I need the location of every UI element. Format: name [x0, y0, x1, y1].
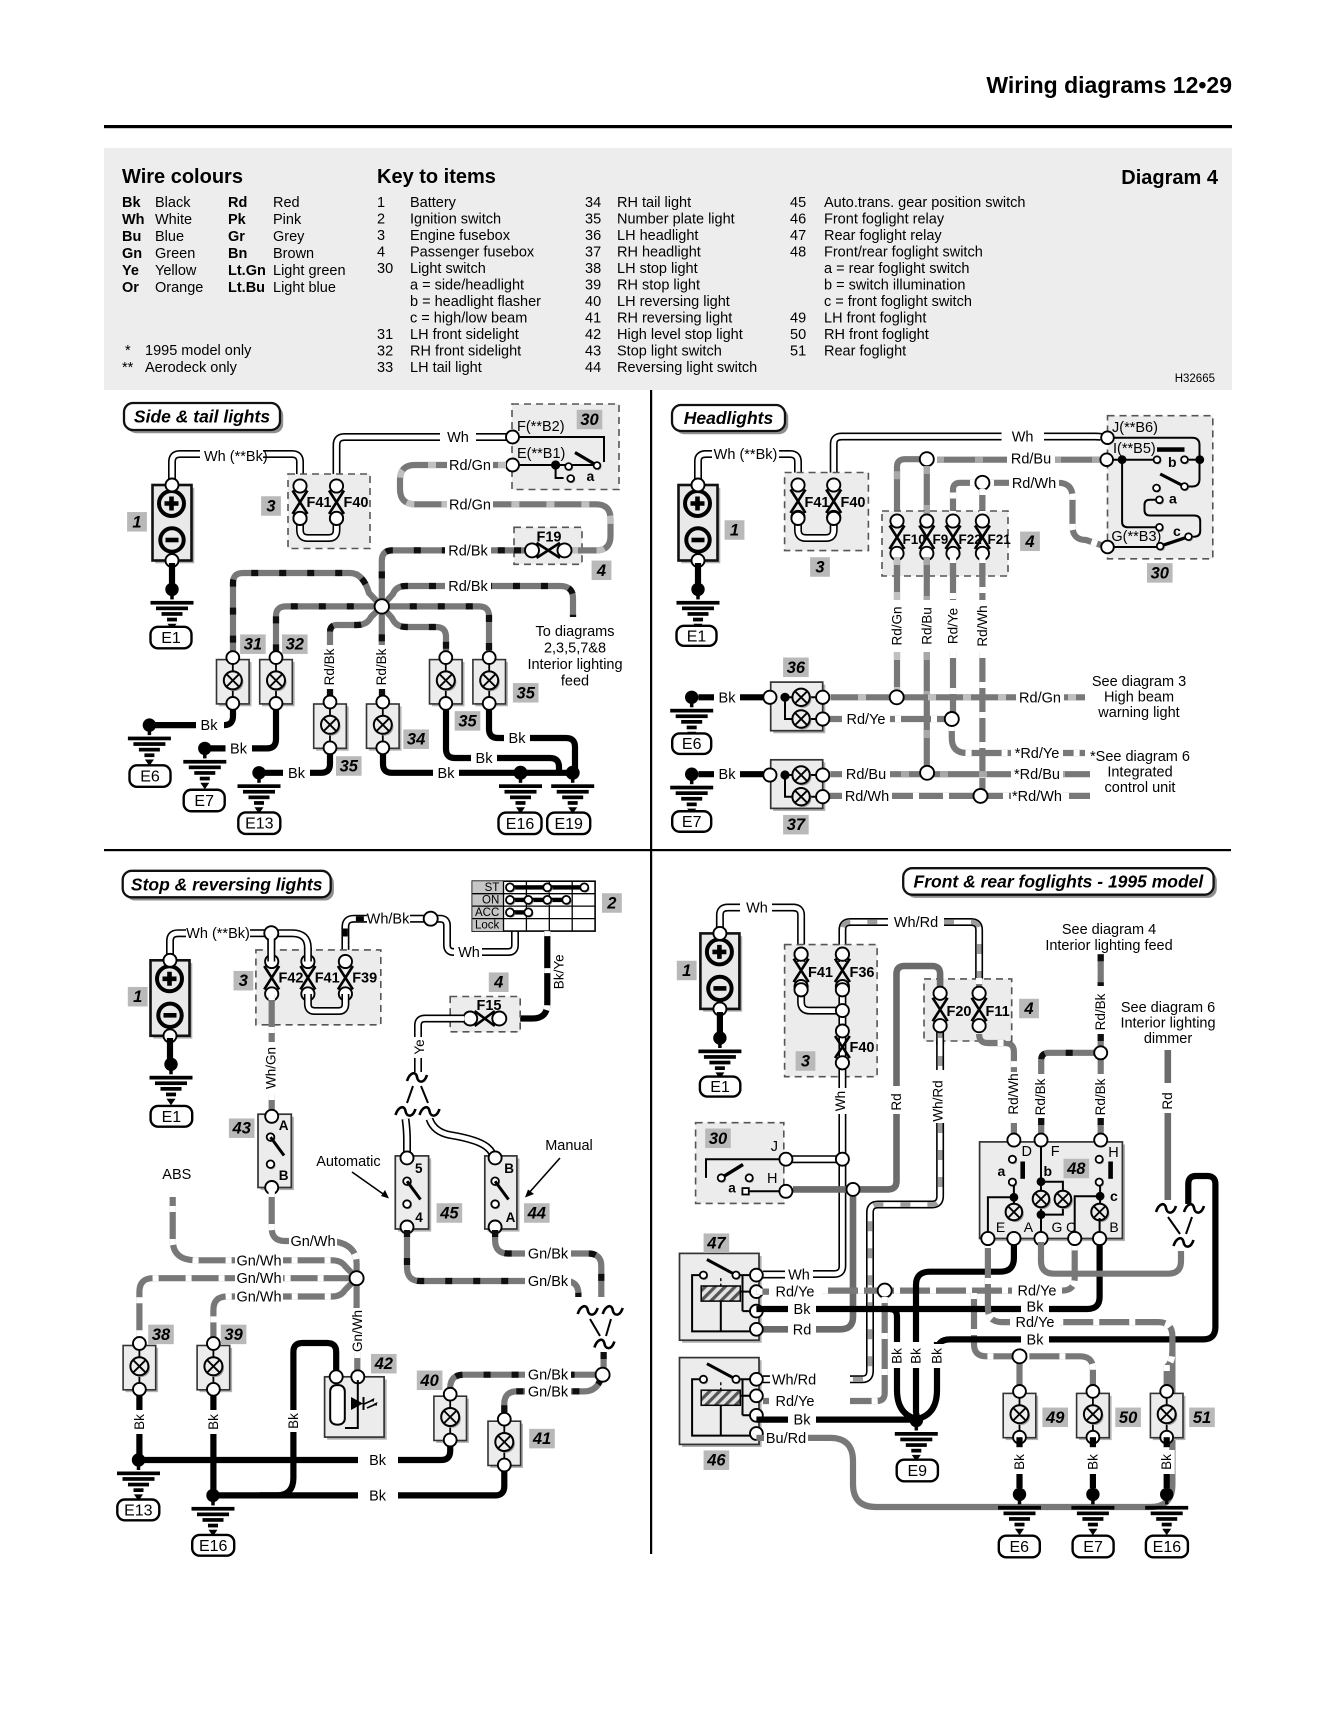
svg-text:c = high/low beam: c = high/low beam: [410, 311, 527, 327]
svg-text:Bk: Bk: [201, 718, 219, 734]
svg-text:45: 45: [439, 1205, 459, 1223]
svg-text:35: 35: [517, 684, 536, 702]
svg-text:c: c: [1110, 1188, 1118, 1204]
svg-text:Passenger fusebox: Passenger fusebox: [410, 245, 535, 261]
svg-text:Front foglight relay: Front foglight relay: [824, 212, 945, 228]
svg-text:Bk: Bk: [438, 766, 456, 782]
svg-text:Wh: Wh: [447, 430, 469, 446]
svg-text:3: 3: [377, 228, 385, 244]
svg-text:Bk: Bk: [369, 1453, 387, 1469]
svg-text:Interior lighting feed: Interior lighting feed: [1045, 938, 1172, 954]
svg-text:Bk: Bk: [930, 1348, 945, 1364]
svg-text:Integrated: Integrated: [1107, 765, 1172, 781]
svg-text:H: H: [1108, 1145, 1118, 1161]
svg-text:High level stop light: High level stop light: [617, 327, 743, 343]
svg-text:Bk: Bk: [132, 1414, 147, 1430]
svg-text:35: 35: [340, 758, 359, 776]
svg-text:LH tail light: LH tail light: [410, 360, 482, 376]
svg-text:30: 30: [1151, 564, 1170, 582]
svg-text:E6: E6: [140, 769, 160, 786]
svg-text:Bk: Bk: [1012, 1454, 1027, 1470]
svg-text:See diagram 3: See diagram 3: [1092, 674, 1186, 690]
svg-text:Ignition switch: Ignition switch: [410, 212, 501, 228]
svg-text:ST: ST: [485, 882, 500, 894]
svg-text:Wiring diagrams 12•29: Wiring diagrams 12•29: [986, 72, 1232, 98]
svg-text:Bk: Bk: [509, 731, 527, 747]
svg-text:Reversing light switch: Reversing light switch: [617, 360, 757, 376]
svg-text:50: 50: [790, 327, 806, 343]
svg-text:43: 43: [232, 1120, 251, 1138]
svg-text:a: a: [1169, 491, 1177, 507]
svg-text:Yellow: Yellow: [155, 263, 197, 279]
svg-text:Light green: Light green: [273, 263, 346, 279]
svg-text:35: 35: [585, 212, 601, 228]
svg-text:Rd/Ye: Rd/Ye: [776, 1394, 815, 1410]
svg-text:a = rear foglight switch: a = rear foglight switch: [824, 261, 969, 277]
svg-text:Bk: Bk: [890, 1348, 905, 1364]
svg-text:F39: F39: [352, 971, 377, 987]
svg-text:Rd/Ye: Rd/Ye: [1018, 1284, 1057, 1300]
svg-text:35: 35: [458, 712, 477, 730]
svg-text:Number plate light: Number plate light: [617, 212, 735, 228]
svg-text:B: B: [279, 1168, 289, 1183]
svg-text:Brown: Brown: [273, 246, 314, 262]
svg-text:E1: E1: [162, 1109, 182, 1126]
svg-text:38: 38: [585, 261, 601, 277]
svg-text:Lt.Gn: Lt.Gn: [228, 263, 266, 279]
svg-text:a: a: [998, 1163, 1006, 1179]
svg-text:RH front foglight: RH front foglight: [824, 327, 929, 343]
svg-text:44: 44: [585, 360, 601, 376]
svg-text:1: 1: [682, 962, 691, 980]
svg-text:F(**B2): F(**B2): [517, 419, 565, 435]
svg-text:Rd/Wh: Rd/Wh: [1006, 1073, 1021, 1114]
svg-text:E13: E13: [124, 1502, 153, 1519]
svg-text:30: 30: [580, 411, 599, 429]
svg-text:3: 3: [815, 559, 824, 577]
svg-text:Bn: Bn: [228, 246, 247, 262]
svg-text:Rd/Gn: Rd/Gn: [890, 606, 905, 645]
svg-text:Wh/Rd: Wh/Rd: [772, 1372, 816, 1388]
svg-text:Light blue: Light blue: [273, 280, 336, 296]
svg-text:F21: F21: [988, 532, 1012, 547]
svg-text:Rd/Bk: Rd/Bk: [322, 648, 337, 685]
svg-text:Automatic: Automatic: [316, 1154, 380, 1170]
svg-text:Bk: Bk: [122, 195, 141, 211]
svg-text:4: 4: [1023, 1000, 1033, 1018]
svg-text:Diagram 4: Diagram 4: [1121, 167, 1219, 189]
svg-text:A: A: [1024, 1219, 1034, 1235]
svg-text:32: 32: [377, 344, 393, 360]
svg-text:Wh: Wh: [1012, 430, 1034, 446]
svg-text:F40: F40: [841, 495, 866, 511]
svg-text:Engine fusebox: Engine fusebox: [410, 228, 511, 244]
svg-text:Auto.trans. gear position swit: Auto.trans. gear position switch: [824, 195, 1026, 211]
svg-text:b: b: [1044, 1163, 1053, 1179]
svg-text:*Rd/Wh: *Rd/Wh: [1012, 789, 1062, 805]
svg-text:E1: E1: [161, 630, 181, 647]
svg-text:F36: F36: [850, 965, 875, 981]
svg-text:Rear foglight: Rear foglight: [824, 344, 906, 360]
svg-text:42: 42: [374, 1355, 393, 1373]
svg-text:A: A: [506, 1210, 516, 1225]
svg-text:30: 30: [377, 261, 393, 277]
svg-text:47: 47: [706, 1235, 726, 1253]
svg-text:E13: E13: [245, 816, 274, 833]
svg-text:Rd/Ye: Rd/Ye: [776, 1285, 815, 1301]
svg-text:Interior lighting: Interior lighting: [527, 657, 622, 673]
svg-text:b = headlight flasher: b = headlight flasher: [410, 294, 541, 310]
svg-text:Wh/Bk: Wh/Bk: [367, 912, 410, 928]
svg-text:Bk: Bk: [369, 1488, 387, 1504]
svg-text:Gn: Gn: [122, 246, 142, 262]
svg-text:F10: F10: [903, 532, 926, 547]
svg-text:Blue: Blue: [155, 229, 184, 245]
svg-text:2: 2: [377, 212, 385, 228]
svg-text:Rd: Rd: [228, 195, 247, 211]
svg-text:Rd/Bu: Rd/Bu: [1011, 452, 1051, 468]
svg-text:F41: F41: [307, 495, 332, 511]
svg-text:Rd/Bk: Rd/Bk: [374, 648, 389, 685]
svg-text:Bk: Bk: [206, 1414, 221, 1430]
svg-text:Rd/Bk: Rd/Bk: [1093, 1078, 1108, 1115]
svg-text:39: 39: [224, 1326, 243, 1344]
svg-text:*Rd/Ye: *Rd/Ye: [1015, 746, 1060, 762]
svg-text:4: 4: [377, 245, 385, 261]
svg-text:Bk: Bk: [1027, 1299, 1045, 1315]
svg-text:F11: F11: [986, 1004, 1010, 1020]
svg-text:Bk: Bk: [1027, 1332, 1045, 1348]
svg-text:51: 51: [790, 344, 806, 360]
svg-text:46: 46: [706, 1452, 726, 1470]
svg-text:1995 model only: 1995 model only: [145, 343, 252, 359]
svg-text:3: 3: [266, 498, 275, 516]
svg-text:Manual: Manual: [545, 1138, 593, 1154]
svg-text:Black: Black: [155, 195, 191, 211]
svg-text:4: 4: [596, 562, 606, 580]
svg-text:Key to items: Key to items: [377, 166, 496, 188]
svg-text:Orange: Orange: [155, 280, 203, 296]
svg-text:Gn/Bk: Gn/Bk: [528, 1247, 569, 1263]
svg-text:1: 1: [377, 195, 385, 211]
svg-text:Ye: Ye: [412, 1039, 427, 1054]
svg-text:Bk: Bk: [288, 766, 306, 782]
svg-text:RH headlight: RH headlight: [617, 245, 701, 261]
svg-text:E7: E7: [194, 793, 214, 810]
svg-text:E(**B1): E(**B1): [517, 446, 565, 462]
svg-text:Red: Red: [273, 195, 300, 211]
svg-text:4: 4: [1024, 533, 1034, 551]
svg-text:Stop & reversing lights: Stop & reversing lights: [131, 874, 323, 894]
svg-text:F41: F41: [808, 965, 833, 981]
svg-text:36: 36: [787, 659, 806, 677]
svg-text:32: 32: [286, 636, 304, 654]
svg-text:48: 48: [1066, 1160, 1086, 1178]
svg-text:Green: Green: [155, 246, 195, 262]
svg-text:b = switch illumination: b = switch illumination: [824, 278, 965, 294]
svg-text:To diagrams: To diagrams: [536, 624, 615, 640]
svg-text:Rd/Gn: Rd/Gn: [1019, 690, 1061, 706]
svg-text:4: 4: [493, 974, 503, 992]
svg-text:Gn/Wh: Gn/Wh: [236, 1271, 281, 1287]
svg-text:Wire colours: Wire colours: [122, 166, 243, 188]
svg-text:40: 40: [419, 1372, 439, 1390]
svg-text:E6: E6: [1010, 1539, 1030, 1556]
svg-text:Ye: Ye: [122, 263, 139, 279]
svg-text:33: 33: [377, 360, 393, 376]
svg-text:34: 34: [585, 195, 601, 211]
svg-text:39: 39: [585, 278, 601, 294]
svg-text:51: 51: [1193, 1409, 1211, 1427]
svg-text:Bk/Ye: Bk/Ye: [551, 954, 566, 989]
svg-text:*See diagram 6: *See diagram 6: [1090, 749, 1190, 765]
svg-text:Gn/Wh: Gn/Wh: [236, 1290, 281, 1306]
svg-text:Bk: Bk: [286, 1413, 301, 1429]
svg-text:1: 1: [730, 522, 739, 540]
svg-text:Bk: Bk: [794, 1413, 812, 1429]
svg-text:LH front foglight: LH front foglight: [824, 311, 926, 327]
svg-text:Wh (**Bk): Wh (**Bk): [714, 447, 778, 463]
svg-text:Rd/Bu: Rd/Bu: [846, 767, 886, 783]
svg-text:44: 44: [527, 1205, 546, 1223]
svg-text:46: 46: [790, 212, 806, 228]
svg-text:Gn/Wh: Gn/Wh: [236, 1253, 281, 1269]
svg-text:Rd/Bu: Rd/Bu: [919, 607, 934, 645]
svg-text:E: E: [996, 1219, 1005, 1235]
svg-text:G: G: [1052, 1219, 1063, 1235]
svg-text:See diagram 6: See diagram 6: [1121, 1000, 1215, 1016]
svg-text:Wh (**Bk): Wh (**Bk): [186, 926, 250, 942]
svg-text:I(**B5): I(**B5): [1113, 441, 1156, 457]
svg-text:D: D: [1022, 1144, 1032, 1160]
svg-text:38: 38: [152, 1326, 171, 1344]
svg-text:Rd/Bk: Rd/Bk: [1093, 993, 1108, 1030]
svg-text:Gn/Bk: Gn/Bk: [528, 1274, 569, 1290]
svg-text:Rd/Bk: Rd/Bk: [448, 543, 488, 559]
svg-text:31: 31: [377, 327, 393, 343]
svg-text:Gn/Wh: Gn/Wh: [350, 1310, 365, 1352]
svg-text:50: 50: [1119, 1409, 1138, 1427]
svg-text:Gn/Bk: Gn/Bk: [528, 1368, 569, 1384]
svg-text:Bu: Bu: [122, 229, 141, 245]
svg-text:J: J: [771, 1139, 778, 1155]
svg-text:Rd/Wh: Rd/Wh: [975, 605, 990, 646]
svg-text:4: 4: [415, 1210, 423, 1225]
svg-text:Wh/Rd: Wh/Rd: [894, 915, 938, 931]
svg-text:a: a: [728, 1181, 736, 1196]
svg-text:B: B: [1109, 1219, 1118, 1235]
svg-text:37: 37: [787, 816, 806, 834]
svg-text:E1: E1: [687, 628, 707, 645]
svg-text:5: 5: [415, 1161, 423, 1176]
svg-text:Bk: Bk: [909, 1348, 924, 1364]
svg-text:Gn/Wh: Gn/Wh: [290, 1234, 335, 1250]
svg-text:Bk: Bk: [1085, 1454, 1100, 1470]
svg-text:F22: F22: [959, 532, 982, 547]
svg-text:Lt.Bu: Lt.Bu: [228, 280, 265, 296]
svg-text:43: 43: [585, 344, 601, 360]
svg-text:Bk: Bk: [476, 751, 494, 767]
svg-text:E16: E16: [199, 1538, 228, 1555]
svg-text:Side & tail lights: Side & tail lights: [134, 407, 270, 427]
svg-text:Rd/Wh: Rd/Wh: [1012, 476, 1056, 492]
svg-text:Or: Or: [122, 280, 139, 296]
svg-text:E7: E7: [682, 814, 702, 831]
svg-text:RH front sidelight: RH front sidelight: [410, 344, 521, 360]
svg-text:F40: F40: [850, 1040, 875, 1056]
svg-text:Rd/Gn: Rd/Gn: [449, 497, 491, 513]
svg-text:Rd/Ye: Rd/Ye: [847, 712, 886, 728]
svg-text:Stop light switch: Stop light switch: [617, 344, 722, 360]
svg-text:See diagram 4: See diagram 4: [1062, 922, 1156, 938]
svg-text:40: 40: [585, 294, 601, 310]
svg-text:Wh/Rd: Wh/Rd: [931, 1080, 946, 1121]
svg-text:Bk: Bk: [719, 767, 737, 783]
svg-text:F20: F20: [947, 1004, 972, 1020]
svg-text:Interior lighting: Interior lighting: [1120, 1016, 1215, 1032]
svg-text:Wh: Wh: [833, 1091, 848, 1111]
svg-text:A: A: [279, 1118, 289, 1133]
svg-text:Light switch: Light switch: [410, 261, 486, 277]
svg-text:49: 49: [790, 311, 806, 327]
svg-text:2: 2: [606, 895, 616, 913]
svg-text:Rd: Rd: [793, 1322, 812, 1338]
svg-text:41: 41: [585, 311, 601, 327]
svg-text:Wh: Wh: [458, 945, 480, 961]
svg-text:E7: E7: [1083, 1539, 1103, 1556]
svg-text:48: 48: [790, 245, 806, 261]
svg-text:F40: F40: [344, 495, 369, 511]
svg-text:Bk: Bk: [719, 690, 737, 706]
svg-text:feed: feed: [561, 674, 589, 690]
svg-text:E16: E16: [506, 816, 535, 833]
svg-text:Rd/Wh: Rd/Wh: [845, 789, 889, 805]
svg-text:Rd: Rd: [889, 1093, 904, 1110]
svg-text:*Rd/Bu: *Rd/Bu: [1014, 767, 1060, 783]
svg-text:Front & rear foglights - 1995: Front & rear foglights - 1995 model: [914, 872, 1205, 892]
svg-text:E6: E6: [682, 736, 702, 753]
svg-text:a: a: [587, 468, 595, 484]
svg-text:ABS: ABS: [162, 1167, 191, 1183]
svg-text:F41: F41: [805, 495, 830, 511]
svg-text:Grey: Grey: [273, 229, 305, 245]
svg-text:Battery: Battery: [410, 195, 457, 211]
svg-text:Bk: Bk: [1159, 1454, 1174, 1470]
svg-text:Headlights: Headlights: [684, 408, 774, 428]
svg-text:31: 31: [244, 636, 262, 654]
svg-text:ACC: ACC: [475, 907, 499, 919]
svg-text:H32665: H32665: [1175, 373, 1215, 385]
svg-text:Rear foglight relay: Rear foglight relay: [824, 228, 942, 244]
svg-text:Wh: Wh: [788, 1268, 810, 1284]
svg-text:1: 1: [133, 988, 142, 1006]
svg-text:Wh: Wh: [122, 212, 145, 228]
svg-text:LH stop light: LH stop light: [617, 261, 698, 277]
svg-text:B: B: [504, 1161, 514, 1176]
svg-text:F42: F42: [279, 971, 304, 987]
svg-text:E1: E1: [710, 1079, 730, 1096]
svg-text:LH front sidelight: LH front sidelight: [410, 327, 519, 343]
svg-text:White: White: [155, 212, 192, 228]
svg-text:Wh (**Bk): Wh (**Bk): [204, 449, 268, 465]
svg-text:E9: E9: [908, 1463, 928, 1480]
svg-text:E16: E16: [1153, 1539, 1182, 1556]
svg-text:Rd/Bk: Rd/Bk: [1033, 1078, 1048, 1115]
svg-text:Rd/Ye: Rd/Ye: [1016, 1315, 1055, 1331]
svg-text:49: 49: [1045, 1409, 1065, 1427]
svg-text:a = side/headlight: a = side/headlight: [410, 278, 524, 294]
svg-text:47: 47: [790, 228, 806, 244]
svg-text:3: 3: [239, 972, 248, 990]
svg-text:E19: E19: [554, 816, 583, 833]
svg-text:High beam: High beam: [1104, 690, 1174, 706]
svg-text:36: 36: [585, 228, 601, 244]
svg-text:F: F: [1051, 1144, 1060, 1160]
svg-text:Gr: Gr: [228, 229, 245, 245]
svg-text:Bu/Rd: Bu/Rd: [766, 1431, 806, 1447]
svg-text:Pk: Pk: [228, 212, 247, 228]
svg-text:J(**B6): J(**B6): [1112, 420, 1158, 436]
svg-text:Aerodeck only: Aerodeck only: [145, 360, 238, 376]
svg-text:H: H: [767, 1171, 777, 1187]
svg-text:c = front foglight switch: c = front foglight switch: [824, 294, 972, 310]
svg-text:Rd: Rd: [1160, 1092, 1175, 1109]
svg-text:LH headlight: LH headlight: [617, 228, 698, 244]
svg-text:F9: F9: [933, 532, 949, 547]
svg-text:41: 41: [532, 1430, 551, 1448]
svg-text:Rd/Bk: Rd/Bk: [448, 579, 488, 595]
svg-text:control unit: control unit: [1105, 780, 1176, 796]
svg-text:37: 37: [585, 245, 601, 261]
svg-text:RH stop light: RH stop light: [617, 278, 700, 294]
svg-text:G(**B3): G(**B3): [1111, 529, 1161, 545]
svg-text:Lock: Lock: [475, 920, 500, 932]
svg-text:2,3,5,7&8: 2,3,5,7&8: [544, 641, 606, 657]
svg-text:RH tail light: RH tail light: [617, 195, 691, 211]
svg-text:Pink: Pink: [273, 212, 302, 228]
svg-text:RH reversing light: RH reversing light: [617, 311, 732, 327]
svg-text:*: *: [125, 343, 131, 359]
svg-text:Wh: Wh: [746, 901, 768, 917]
svg-text:F41: F41: [315, 971, 340, 987]
svg-text:3: 3: [801, 1053, 810, 1071]
svg-text:30: 30: [709, 1130, 728, 1148]
svg-text:Gn/Bk: Gn/Bk: [528, 1384, 569, 1400]
svg-text:45: 45: [790, 195, 806, 211]
svg-text:34: 34: [407, 731, 425, 749]
svg-text:LH reversing light: LH reversing light: [617, 294, 730, 310]
svg-text:1: 1: [132, 513, 141, 531]
svg-text:Wh/Gn: Wh/Gn: [264, 1047, 279, 1089]
svg-text:b: b: [1168, 454, 1177, 470]
svg-text:**: **: [122, 360, 134, 376]
svg-text:c: c: [1173, 523, 1181, 539]
svg-text:42: 42: [585, 327, 601, 343]
svg-text:Front/rear foglight switch: Front/rear foglight switch: [824, 245, 983, 261]
svg-text:warning light: warning light: [1097, 705, 1179, 721]
svg-text:Bk: Bk: [230, 741, 248, 757]
svg-text:Rd/Ye: Rd/Ye: [946, 608, 961, 644]
svg-text:Bk: Bk: [794, 1302, 812, 1318]
svg-text:Rd/Gn: Rd/Gn: [449, 458, 491, 474]
svg-text:ON: ON: [482, 895, 499, 907]
svg-text:dimmer: dimmer: [1144, 1031, 1193, 1047]
